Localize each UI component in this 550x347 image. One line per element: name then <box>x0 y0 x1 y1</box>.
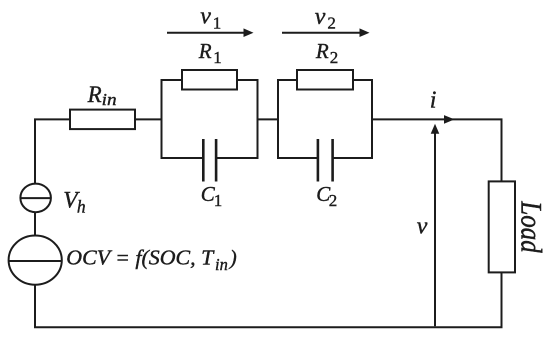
svg-text:Load: Load <box>515 200 549 252</box>
wire: RC box 1 outline (left, top, right) <box>162 80 258 158</box>
wire: RC box 1 bottom right segment <box>216 157 258 159</box>
svg-text:h: h <box>77 196 86 216</box>
svg-text:2: 2 <box>327 13 336 32</box>
load <box>489 181 515 272</box>
wire: between RC box 1 and RC box 2 <box>258 118 279 120</box>
voltage source OCV <box>9 236 62 285</box>
svg-text:v: v <box>200 4 211 30</box>
wire: RC box 2 bottom left segment <box>277 157 318 159</box>
wire: RC box 2 outline (left, top, right) <box>278 80 372 158</box>
label Load <box>515 200 549 252</box>
arrow v2 <box>282 28 370 37</box>
resistor R1 <box>182 70 237 90</box>
wire: left rail top + top wire to Rin <box>35 119 70 184</box>
svg-text:v: v <box>315 4 326 30</box>
svg-text:1: 1 <box>213 14 222 33</box>
label i <box>430 88 437 114</box>
svg-text:R: R <box>198 39 212 63</box>
svg-text:R: R <box>315 39 329 63</box>
svg-text:1: 1 <box>213 48 222 67</box>
label C2 <box>316 182 337 210</box>
wire: Rin to RC box 1 <box>135 118 163 120</box>
resistor R2 <box>297 70 353 90</box>
label v2 <box>315 4 336 32</box>
capacitor C2 <box>318 139 333 182</box>
label R2 <box>315 39 338 67</box>
svg-text:v: v <box>417 214 428 240</box>
svg-text:in: in <box>215 255 228 274</box>
label v1 <box>200 4 221 33</box>
wire: load bottom, bottom wire, up to OCV source <box>35 272 502 327</box>
label R1 <box>198 39 222 67</box>
label Vh <box>63 187 86 216</box>
svg-text:i: i <box>430 88 437 114</box>
arrow v1 <box>167 28 254 37</box>
voltage source Vh <box>20 184 51 213</box>
arrow i (current) <box>444 115 455 124</box>
arrow v (voltage) <box>431 124 440 326</box>
svg-text:in: in <box>102 90 117 109</box>
capacitor C1 <box>203 139 216 182</box>
wire: RC box 2 to right rail, corner down to load <box>372 119 502 182</box>
svg-text:2: 2 <box>330 48 339 67</box>
label v <box>417 214 428 240</box>
wire: RC box 1 bottom left segment <box>161 157 204 159</box>
label Rin <box>87 82 117 109</box>
label OCV = f(SOC, T_in) <box>66 245 237 274</box>
svg-text:2: 2 <box>329 191 338 210</box>
svg-text:OCV = f(SOC, T: OCV = f(SOC, T <box>66 245 214 269</box>
svg-text:): ) <box>229 245 237 269</box>
svg-text:1: 1 <box>214 191 223 210</box>
svg-text:R: R <box>87 82 102 107</box>
wire: RC box 2 bottom right segment <box>333 157 373 159</box>
wire: between Vh and OCV sources <box>34 212 36 237</box>
label C1 <box>201 182 222 210</box>
resistor Rin <box>70 110 135 130</box>
